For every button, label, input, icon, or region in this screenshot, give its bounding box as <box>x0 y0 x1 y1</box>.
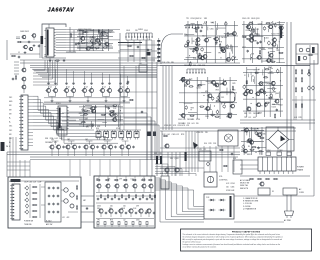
svg-text:220: 220 <box>191 119 194 121</box>
svg-text:T201: T201 <box>57 126 61 128</box>
svg-text:Q62: Q62 <box>85 139 88 141</box>
svg-text:VR3: VR3 <box>276 50 279 52</box>
svg-text:C99: C99 <box>258 136 261 138</box>
svg-text:C305: C305 <box>144 30 148 32</box>
svg-text:C305: C305 <box>230 187 234 189</box>
svg-text:C99: C99 <box>136 206 139 208</box>
svg-text:C305: C305 <box>178 119 182 121</box>
svg-text:Q203: Q203 <box>196 88 200 90</box>
svg-text:L12: L12 <box>261 89 264 91</box>
svg-text:VR3: VR3 <box>97 126 100 128</box>
svg-text:C305: C305 <box>197 65 201 67</box>
svg-text:L12: L12 <box>112 110 115 112</box>
svg-text:0.01: 0.01 <box>253 117 256 119</box>
svg-text:10UF: 10UF <box>230 190 234 192</box>
svg-text:D14: D14 <box>204 143 207 145</box>
svg-text:Q203: Q203 <box>164 173 168 175</box>
svg-text:C305: C305 <box>172 134 176 136</box>
svg-text:IC201: IC201 <box>264 38 268 40</box>
svg-text:R412: R412 <box>25 31 29 33</box>
svg-text:220: 220 <box>247 107 250 109</box>
svg-text:L12: L12 <box>248 117 251 119</box>
svg-text:L12: L12 <box>123 220 126 222</box>
svg-text:10UF: 10UF <box>37 182 41 184</box>
svg-text:R78: R78 <box>89 126 92 128</box>
svg-text:TP1: TP1 <box>244 117 247 119</box>
svg-text:R78: R78 <box>110 220 113 222</box>
svg-text:0.01: 0.01 <box>294 117 297 119</box>
svg-text:TP1: TP1 <box>97 220 100 222</box>
svg-text:4R7: 4R7 <box>83 200 86 202</box>
svg-text:IC201: IC201 <box>245 30 249 32</box>
svg-text:C99: C99 <box>119 179 122 181</box>
svg-text:Q203: Q203 <box>105 107 109 109</box>
svg-text:C305: C305 <box>205 116 209 118</box>
svg-text:Q82: Q82 <box>67 139 70 141</box>
svg-text:100: 100 <box>184 34 187 36</box>
svg-text:D14: D14 <box>49 142 52 144</box>
svg-text:R412: R412 <box>279 104 283 106</box>
svg-text:TRANS: TRANS <box>297 169 304 172</box>
svg-text:PRODUCT SAFETY NOTES: PRODUCT SAFETY NOTES <box>232 230 261 233</box>
svg-text:R78: R78 <box>181 134 184 136</box>
svg-text:TP1: TP1 <box>108 179 111 181</box>
svg-text:TP1: TP1 <box>254 33 257 35</box>
svg-text:10UF: 10UF <box>184 85 188 87</box>
svg-text:Q203: Q203 <box>255 18 259 20</box>
svg-text:F1: F1 <box>272 191 274 193</box>
svg-text:D14: D14 <box>241 150 244 152</box>
svg-text:L12: L12 <box>62 217 65 219</box>
svg-text:CORD: CORD <box>299 192 305 194</box>
svg-text:IC201: IC201 <box>86 108 90 110</box>
svg-text:IC201: IC201 <box>230 183 234 185</box>
svg-text:C99: C99 <box>99 40 102 42</box>
svg-text:Q203: Q203 <box>275 93 279 95</box>
svg-text:0.01: 0.01 <box>242 47 245 49</box>
svg-text:IC201: IC201 <box>272 106 276 108</box>
svg-text:Q42: Q42 <box>103 139 106 141</box>
svg-text:TP1: TP1 <box>244 132 247 134</box>
svg-text:TP1: TP1 <box>218 52 221 54</box>
svg-text:L12: L12 <box>92 38 95 40</box>
svg-text:TP1: TP1 <box>211 22 214 24</box>
svg-text:C305: C305 <box>242 18 246 20</box>
svg-text:L12: L12 <box>256 29 259 31</box>
svg-text:CONTROL: CONTROL <box>219 180 228 182</box>
svg-text:0.01: 0.01 <box>160 173 163 175</box>
svg-text:Q: TRANSISTOR: Q: TRANSISTOR <box>243 207 257 210</box>
svg-text:IC201: IC201 <box>271 33 275 35</box>
svg-text:R78: R78 <box>259 106 262 108</box>
svg-text:Q203: Q203 <box>195 18 199 20</box>
svg-text:VR3: VR3 <box>204 18 207 20</box>
svg-text:10UF: 10UF <box>247 154 251 156</box>
svg-text:220: 220 <box>196 123 199 125</box>
svg-text:D14: D14 <box>96 128 99 130</box>
svg-text:10UF: 10UF <box>126 30 130 32</box>
svg-text:R78: R78 <box>208 143 211 145</box>
svg-text:0.01: 0.01 <box>92 42 95 44</box>
svg-text:IC201: IC201 <box>196 119 200 121</box>
svg-text:Q203: Q203 <box>258 24 262 26</box>
svg-text:TP1: TP1 <box>96 179 99 181</box>
svg-text:POWER SW: POWER SW <box>24 221 34 223</box>
svg-text:R78: R78 <box>50 138 53 140</box>
svg-text:D14: D14 <box>188 65 191 67</box>
svg-text:R78: R78 <box>298 117 301 119</box>
svg-text:0.01: 0.01 <box>131 179 134 181</box>
svg-text:AC PWR: AC PWR <box>284 219 292 222</box>
svg-text:R412: R412 <box>220 50 224 52</box>
svg-text:0.01: 0.01 <box>44 56 47 58</box>
svg-text:Q22: Q22 <box>121 139 124 141</box>
svg-text:220: 220 <box>109 208 112 210</box>
svg-text:C99: C99 <box>193 65 196 67</box>
svg-text:10UF: 10UF <box>251 18 255 20</box>
svg-text:Q3: Q3 <box>86 87 88 89</box>
svg-text:220: 220 <box>205 132 208 134</box>
svg-text:IC201: IC201 <box>116 128 120 130</box>
svg-text:2SC945: 2SC945 <box>260 134 266 136</box>
svg-text:B+: B+ <box>9 118 11 120</box>
svg-text:R412: R412 <box>59 138 63 140</box>
svg-text:TUNE IND: TUNE IND <box>24 224 32 226</box>
svg-text:TP1: TP1 <box>186 18 189 20</box>
svg-text:VR3: VR3 <box>215 89 218 91</box>
svg-text:J1: J1 <box>18 52 20 54</box>
svg-text:0.01: 0.01 <box>55 138 58 140</box>
svg-text:Q5: Q5 <box>122 87 124 89</box>
svg-text:X1: X1 <box>101 31 103 33</box>
svg-text:R78: R78 <box>219 41 222 43</box>
svg-text:220: 220 <box>85 119 88 121</box>
svg-text:115V: 115V <box>267 150 270 152</box>
svg-text:VOL: VOL <box>219 176 223 178</box>
svg-text:VR3: VR3 <box>191 107 194 109</box>
svg-text:0.01: 0.01 <box>189 79 192 81</box>
svg-text:Q1: Q1 <box>50 87 52 89</box>
svg-text:2SC945: 2SC945 <box>221 37 227 39</box>
svg-text:C305: C305 <box>97 206 101 208</box>
svg-text:2SC945: 2SC945 <box>109 32 115 34</box>
svg-text:Q203: Q203 <box>268 67 272 69</box>
svg-text:JA667AV: JA667AV <box>48 7 75 13</box>
svg-text:100: 100 <box>123 206 126 208</box>
svg-text:220: 220 <box>139 63 142 65</box>
svg-text:C99: C99 <box>182 119 185 121</box>
svg-text:C305: C305 <box>210 28 214 30</box>
svg-text:CF1: CF1 <box>221 97 224 99</box>
svg-text:R78: R78 <box>226 117 229 119</box>
svg-text:C305: C305 <box>136 220 140 222</box>
svg-text:100: 100 <box>226 187 229 189</box>
svg-text:230V: 230V <box>279 150 283 152</box>
svg-text:Q203: Q203 <box>174 158 178 160</box>
svg-text:Q4: Q4 <box>104 87 106 89</box>
svg-text:C99: C99 <box>166 62 169 64</box>
svg-text:0.01: 0.01 <box>191 123 194 125</box>
svg-text:L12: L12 <box>176 134 179 136</box>
svg-text:TP1: TP1 <box>248 113 251 115</box>
svg-text:C: CAPACITOR UF: C: CAPACITOR UF <box>243 197 258 200</box>
svg-text:Q203: Q203 <box>266 83 270 85</box>
svg-text:POWER: POWER <box>297 167 304 169</box>
svg-text:R412: R412 <box>221 83 225 85</box>
svg-text:Q2: Q2 <box>68 87 70 89</box>
svg-text:10UF: 10UF <box>24 182 28 184</box>
svg-text:D14: D14 <box>259 154 262 156</box>
svg-text:R78: R78 <box>232 83 235 85</box>
svg-text:220: 220 <box>233 90 236 92</box>
svg-text:220: 220 <box>86 32 89 34</box>
svg-text:R78: R78 <box>277 34 280 36</box>
svg-text:PH: PH <box>6 146 8 148</box>
svg-text:220: 220 <box>110 206 113 208</box>
svg-text:10UF: 10UF <box>121 208 125 210</box>
svg-text:C305: C305 <box>28 182 32 184</box>
svg-text:VR3: VR3 <box>154 153 157 155</box>
svg-text:B+: B+ <box>9 122 11 124</box>
svg-text:SEE NOTE: SEE NOTE <box>240 188 248 190</box>
svg-text:10UF: 10UF <box>20 31 24 33</box>
svg-text:100: 100 <box>272 104 275 106</box>
svg-text:D14: D14 <box>222 47 225 49</box>
svg-text:IC201: IC201 <box>208 83 212 85</box>
svg-text:0.01: 0.01 <box>233 158 236 160</box>
svg-text:2SC945: 2SC945 <box>78 33 84 35</box>
svg-text:C99: C99 <box>256 133 259 135</box>
svg-text:D14: D14 <box>213 85 216 87</box>
svg-text:220: 220 <box>200 132 203 134</box>
svg-text:0.01: 0.01 <box>167 134 170 136</box>
svg-text:2SC945: 2SC945 <box>259 48 265 50</box>
svg-text:R412: R412 <box>81 43 85 45</box>
svg-text:CN201: CN201 <box>138 29 143 31</box>
svg-text:TP1: TP1 <box>251 29 254 31</box>
svg-text:Q203: Q203 <box>89 41 93 43</box>
svg-text:VR3: VR3 <box>86 126 89 128</box>
svg-text:SELECT SW: SELECT SW <box>240 183 250 185</box>
svg-text:TP1: TP1 <box>257 113 260 115</box>
svg-text:Q203: Q203 <box>87 29 91 31</box>
svg-text:R412: R412 <box>213 39 217 41</box>
